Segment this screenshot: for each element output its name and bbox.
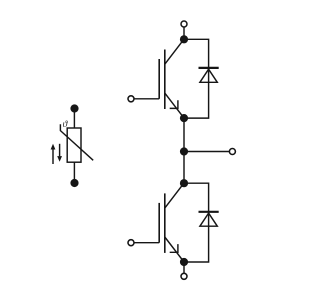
current arrow up xyxy=(52,149,54,165)
wire gate lead Q1 xyxy=(134,98,159,100)
wire midpoint to AC terminal xyxy=(184,151,229,153)
thermistor top terminal dot xyxy=(70,104,78,112)
IGBT Q1 emitter lead xyxy=(165,93,184,118)
thermistor bottom terminal dot xyxy=(70,179,78,187)
wire thermistor bottom lead xyxy=(73,162,75,183)
wire top emitter node to midpoint node xyxy=(183,118,185,151)
IGBT Q2 gate bar xyxy=(158,203,160,243)
gate terminal G1 (open circle) xyxy=(128,96,134,102)
IGBT Q2 collector lead xyxy=(165,184,183,208)
diode D2 cathode bar xyxy=(199,211,219,213)
IGBT Q2 emitter arrowhead xyxy=(170,244,178,252)
node dot: bottom emitter node xyxy=(180,258,188,266)
terminal DC- (bottom emitter terminal, open circle) xyxy=(181,273,187,279)
node dot: top emitter node xyxy=(180,114,188,122)
IGBT Q1 gate bar xyxy=(158,59,160,99)
diode D1 cathode bar xyxy=(199,67,219,69)
wire collector node to diode D1 branch xyxy=(184,39,209,118)
diode D2 triangle (anode, pointing up) xyxy=(200,213,217,226)
wire midpoint node to bottom collector node xyxy=(183,152,185,184)
IGBT Q1 emitter arrowhead xyxy=(170,100,178,108)
wire bottom collector node to diode D2 branch xyxy=(184,183,209,262)
node dot: top collector node xyxy=(180,35,188,43)
terminal DC+ (top collector terminal, open circle) xyxy=(181,21,187,27)
diode D1 triangle (anode, pointing up) xyxy=(200,69,217,82)
IGBT Q1 body bar xyxy=(164,50,166,110)
wire bottom emitter node to DC- terminal xyxy=(183,262,185,273)
terminal AC output (open circle) xyxy=(229,149,235,155)
current arrow down xyxy=(59,144,61,157)
node dot: bottom collector node xyxy=(180,179,188,187)
wire top terminal to collector node xyxy=(183,27,185,39)
gate terminal G2 (open circle) xyxy=(128,240,134,246)
IGBT Q2 emitter lead xyxy=(165,237,184,262)
wire thermistor top lead xyxy=(73,109,75,129)
wire gate lead Q2 xyxy=(134,242,159,244)
thermistor diagonal stroke with tick xyxy=(60,124,93,160)
thermistor body (rectangle) xyxy=(67,128,81,162)
IGBT Q1 collector lead xyxy=(165,40,183,64)
IGBT Q2 body bar xyxy=(164,193,166,253)
node dot: midpoint (AC output) node xyxy=(180,147,188,155)
